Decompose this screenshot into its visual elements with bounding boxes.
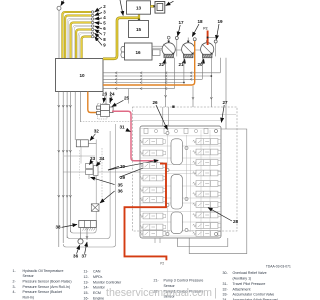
svg-text:CAN: CAN	[93, 270, 101, 274]
port circles	[175, 37, 178, 40]
wire pilot line x=67.1	[66, 92, 68, 239]
svg-text:Hydraulic Oil Temperature: Hydraulic Oil Temperature	[23, 269, 64, 273]
svg-text:Monitor: Monitor	[93, 286, 106, 290]
svg-text:15: 15	[136, 27, 142, 32]
svg-text:19: 19	[217, 19, 223, 24]
svg-text:7: 7	[103, 31, 106, 36]
svg-text:15-: 15-	[84, 291, 90, 295]
spool valve right y=194	[196, 191, 218, 197]
svg-text:32: 32	[94, 129, 100, 134]
wire 9 (pilot sensor harness)	[82, 37, 92, 59]
spool valve left y=165.5	[143, 163, 163, 169]
wire sensor signal y=72.8	[103, 72, 220, 74]
svg-text:30: 30	[120, 164, 126, 169]
spool valve right y=152	[196, 149, 218, 155]
wire 3 (pilot sensor harness)	[65, 16, 91, 59]
left drop lines below box10	[58, 92, 81, 248]
svg-text:36: 36	[118, 188, 124, 193]
svg-text:24: 24	[109, 91, 115, 96]
svg-text:1-: 1-	[13, 269, 17, 273]
svg-text:31: 31	[120, 125, 126, 130]
svg-text:10: 10	[79, 73, 85, 78]
svg-text:Engine: Engine	[93, 296, 104, 300]
svg-text:Overload Relief Valve: Overload Relief Valve	[233, 271, 267, 275]
spool valve left y=216	[143, 213, 163, 219]
node port 9	[91, 35, 93, 37]
spool valve left y=199.5	[143, 197, 163, 203]
wire pilot line x=70.4	[69, 92, 71, 233]
svg-text:Attachment: Attachment	[233, 287, 251, 291]
node port 4	[91, 18, 93, 20]
node port 7	[91, 28, 93, 30]
wire 4 (pilot sensor harness)	[68, 19, 92, 59]
orange drop to 25	[88, 92, 98, 113]
svg-text:5: 5	[103, 20, 106, 25]
solenoid 23/24	[102, 91, 115, 104]
svg-text:21: 21	[179, 62, 185, 67]
svg-text:3-: 3-	[13, 285, 17, 289]
wire 5 (pilot sensor harness)	[71, 23, 92, 59]
wire sensor signal y=88.6	[103, 88, 174, 90]
spool valve right y=233.5	[196, 231, 218, 237]
svg-text:2-: 2-	[13, 280, 17, 284]
spool valve left y=153	[143, 150, 163, 156]
wire pilot line x=58.8	[58, 92, 60, 248]
yellow 13->14	[151, 5, 155, 7]
spool valve right y=204.5	[196, 202, 218, 208]
svg-text:13-: 13-	[84, 280, 90, 284]
svg-text:16-: 16-	[84, 296, 90, 300]
svg-text:Roll-In): Roll-In)	[23, 296, 34, 300]
box 15	[129, 21, 149, 38]
wire sensor signal y=76.0	[103, 75, 211, 77]
component 32	[76, 129, 99, 180]
wire 2 (pilot sensor harness)	[62, 12, 91, 59]
svg-text:P2: P2	[203, 27, 207, 31]
svg-text:27: 27	[222, 100, 228, 105]
svg-text:33-: 33-	[223, 293, 229, 297]
spool valve right y=162.5	[196, 160, 218, 166]
svg-text:17: 17	[178, 20, 184, 25]
spool valve left y=190	[143, 187, 163, 193]
left pilot enclosures	[63, 122, 140, 247]
svg-text:Travel Pilot Pressure: Travel Pilot Pressure	[233, 282, 266, 286]
svg-text:31-: 31-	[223, 282, 229, 286]
legend + watermark	[13, 265, 291, 300]
svg-text:Sensor: Sensor	[23, 274, 35, 278]
svg-text:18: 18	[197, 19, 203, 24]
node port 8	[91, 32, 93, 34]
pump group	[159, 38, 214, 68]
leader from top (cut label)	[120, 0, 123, 16]
valve 25	[97, 95, 130, 119]
svg-text:26: 26	[152, 100, 158, 105]
svg-text:12-: 12-	[84, 275, 90, 279]
spool valve left y=233.5	[143, 231, 163, 237]
red P2 wire	[207, 31, 209, 46]
svg-text:MPDr.: MPDr.	[93, 275, 103, 279]
svg-text:34: 34	[99, 156, 105, 161]
svg-text:35: 35	[118, 182, 124, 187]
svg-text:28: 28	[233, 219, 239, 224]
svg-text:6: 6	[103, 26, 106, 31]
valve 38	[56, 221, 97, 259]
wire 7 (pilot sensor harness)	[76, 30, 91, 59]
svg-text:38: 38	[56, 225, 62, 230]
accumulator 36 (x-box)	[91, 204, 99, 212]
svg-text:16: 16	[135, 50, 141, 55]
node port 3	[91, 14, 93, 16]
spool valve right y=141.5	[196, 139, 218, 145]
svg-text:Pressure Sensor (Bucket: Pressure Sensor (Bucket	[23, 290, 62, 294]
orange wire pump2 to box10	[103, 41, 195, 85]
pump 1 with control pressure sensor 22	[168, 38, 170, 43]
pump 2 with control pressure sensor 21	[187, 38, 189, 43]
spool valve right y=183.5	[196, 181, 218, 187]
wire 1	[58, 10, 60, 58]
main valve block	[120, 89, 247, 254]
svg-text:30-: 30-	[223, 271, 229, 275]
wire sensor signal y=79.3	[103, 78, 202, 80]
pink wire	[112, 111, 158, 161]
wire 8 (pilot sensor harness)	[79, 33, 92, 58]
wire 32 to 33	[80, 147, 82, 164]
spool valve left y=178	[143, 175, 163, 181]
node port 5	[91, 21, 93, 23]
svg-text:P2: P2	[160, 261, 164, 265]
yellow harness to 13/15	[103, 18, 139, 59]
svg-text:36: 36	[73, 253, 79, 258]
svg-text:theservicemanual.com |: theservicemanual.com |	[106, 287, 217, 299]
svg-text:ECM: ECM	[93, 291, 101, 295]
box 13	[127, 1, 151, 14]
svg-text:Pressure Sensor (Boom Raise): Pressure Sensor (Boom Raise)	[23, 280, 72, 284]
svg-text:Pressure Sensor (Arm Roll-In): Pressure Sensor (Arm Roll-In)	[23, 285, 71, 289]
svg-text:3: 3	[103, 9, 106, 14]
svg-text:8: 8	[103, 37, 106, 42]
node port 6	[91, 25, 93, 27]
wire pilot line x=63.2	[62, 92, 64, 244]
svg-text:21-: 21-	[154, 279, 160, 283]
wire 6 (pilot sensor harness)	[73, 26, 91, 59]
svg-text:Pump 3 Control Pressure: Pump 3 Control Pressure	[164, 279, 204, 283]
labels 2-9	[95, 4, 107, 47]
spool valve right y=225.5	[196, 223, 218, 229]
svg-text:9: 9	[103, 42, 106, 47]
spool valve right y=173	[196, 170, 218, 176]
svg-text:(Auxiliary 1): (Auxiliary 1)	[233, 277, 252, 281]
svg-text:14-: 14-	[84, 286, 90, 290]
wire sensor signal y=82.5	[103, 82, 184, 84]
spool valve left y=141.5	[143, 139, 163, 145]
components 33/34	[86, 156, 159, 203]
monitor 14	[155, 2, 165, 14]
shaft lines 16 to pumps	[152, 45, 163, 47]
gray sensor lines from box10 right	[103, 36, 226, 129]
spool valve right y=215	[196, 212, 218, 218]
svg-text:33: 33	[90, 156, 96, 161]
svg-text:11-: 11-	[84, 270, 90, 274]
red highlight path	[125, 164, 167, 261]
svg-text:4-: 4-	[13, 290, 17, 294]
svg-text:23: 23	[102, 91, 108, 96]
svg-text:13: 13	[136, 6, 142, 11]
svg-text:22: 22	[159, 62, 165, 67]
svg-text:32-: 32-	[223, 287, 229, 291]
box 16 engine	[121, 46, 125, 52]
controller box 10	[56, 59, 104, 92]
node port 2	[91, 11, 93, 13]
svg-text:2: 2	[103, 4, 106, 9]
svg-text:TDAA-03-03-071: TDAA-03-03-071	[266, 265, 291, 269]
svg-text:Accumulator Control Valve: Accumulator Control Valve	[233, 293, 275, 297]
pump 3 with control pressure sensor 20	[206, 38, 208, 43]
svg-text:4: 4	[103, 15, 106, 20]
spool valve left y=227	[143, 224, 163, 230]
sensor 1 circle	[61, 1, 64, 6]
svg-text:Monitor Controller: Monitor Controller	[93, 280, 122, 284]
svg-text:37: 37	[81, 253, 87, 258]
